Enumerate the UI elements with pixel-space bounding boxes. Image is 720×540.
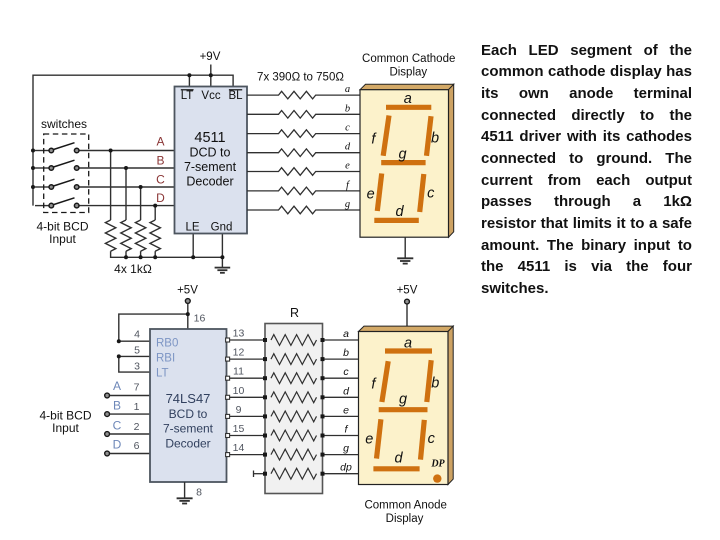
svg-text:a: a — [404, 91, 412, 107]
svg-text:3: 3 — [134, 361, 140, 373]
svg-text:Decoder: Decoder — [186, 175, 233, 189]
svg-text:5: 5 — [134, 345, 140, 357]
wires R box to display 2 — [323, 340, 359, 474]
svg-text:e: e — [345, 161, 350, 172]
+5V terminal (left) — [185, 299, 190, 304]
resistor R3 1k — [135, 220, 145, 251]
resistor R1 1k — [105, 220, 115, 251]
ground under 74LS47 — [177, 498, 193, 503]
wire switch row B — [35, 167, 49, 169]
wire input A — [110, 395, 150, 397]
svg-text:f: f — [345, 424, 349, 436]
svg-text:c: c — [428, 431, 436, 447]
wire dp left — [254, 473, 266, 475]
wire tap D down — [154, 206, 156, 220]
svg-text:Decoder: Decoder — [165, 437, 210, 451]
segment d2 — [373, 466, 419, 471]
svg-text:4: 4 — [134, 329, 140, 341]
segment g — [381, 160, 425, 165]
svg-text:g: g — [343, 443, 349, 455]
svg-text:DP: DP — [430, 459, 445, 470]
display DS2 face — [359, 332, 449, 485]
wire Gnd pin stub — [221, 234, 223, 268]
wire d + resistor Rd — [247, 149, 360, 157]
wire input C — [110, 433, 150, 435]
svg-text:2: 2 — [134, 421, 140, 433]
svg-text:8: 8 — [196, 487, 202, 499]
svg-text:b: b — [431, 376, 439, 392]
svg-text:B: B — [113, 399, 121, 413]
wire input D — [110, 453, 150, 455]
segment a2 — [385, 348, 432, 353]
svg-text:RBI: RBI — [156, 353, 175, 365]
svg-text:74LS47: 74LS47 — [166, 391, 211, 406]
output wires 74LS47 to R — [227, 340, 266, 477]
svg-text:d: d — [345, 142, 351, 153]
tick dp end — [253, 471, 255, 478]
svg-text:e: e — [343, 404, 349, 416]
wire tap B down — [125, 168, 127, 220]
wire row C to chip — [79, 186, 174, 188]
svg-text:A: A — [113, 379, 121, 393]
DS1 segments — [374, 107, 431, 220]
svg-text:g: g — [398, 147, 406, 163]
wire ground rail — [111, 251, 223, 257]
junction dots ground rail — [124, 255, 128, 259]
wire DS1 ground — [404, 237, 406, 258]
svg-text:a: a — [345, 84, 350, 95]
svg-text:c: c — [343, 366, 349, 378]
svg-text:C: C — [113, 419, 122, 433]
wire input B — [110, 413, 150, 415]
wire pin 14 — [227, 454, 266, 456]
switch SW1 — [49, 143, 79, 153]
svg-text:Input: Input — [52, 421, 79, 435]
svg-text:d: d — [395, 204, 404, 220]
wire tap C down — [140, 187, 142, 220]
display DS2 bevel top — [359, 326, 454, 331]
segment c2 — [421, 420, 425, 460]
svg-text:a: a — [404, 336, 412, 352]
svg-text:7: 7 — [134, 382, 140, 394]
wire g + resistor Rg — [247, 206, 360, 214]
wire R4 bottom — [154, 251, 156, 257]
wire pin 12 — [227, 358, 266, 360]
input terminal B — [105, 412, 110, 417]
svg-text:b: b — [431, 131, 439, 147]
junction squares R box edges — [263, 338, 325, 476]
resistors inside R box — [271, 335, 317, 480]
wire pin 5 stub — [119, 355, 150, 357]
segment g2 — [379, 407, 428, 412]
segment f — [383, 116, 389, 156]
svg-text:b: b — [345, 103, 350, 114]
svg-text:DCD to: DCD to — [190, 146, 231, 160]
ground under DS1 — [397, 258, 413, 263]
resistor R2 1k — [121, 220, 131, 251]
wire row D to chip — [79, 205, 174, 207]
svg-text:LE: LE — [185, 222, 199, 234]
svg-text:e: e — [365, 432, 373, 448]
svg-text:BL: BL — [228, 90, 243, 102]
display DS1 bevel right — [449, 84, 454, 237]
svg-text:Common Cathode: Common Cathode — [362, 53, 455, 65]
wire bracket rail — [119, 314, 188, 341]
resistor R4 1k — [150, 220, 160, 251]
wire b + resistor Rb — [247, 111, 360, 119]
wire +5V to 74LS47 — [187, 304, 189, 329]
output wires a-g with resistors — [247, 91, 360, 214]
input terminal C — [105, 432, 110, 437]
wire tap A down — [110, 151, 112, 221]
IC U1 4511 body — [175, 87, 248, 234]
DS2 segment letters — [365, 336, 439, 467]
svg-text:a: a — [343, 328, 349, 340]
wire +9V top rail — [33, 75, 233, 205]
junction dots left vertical — [31, 149, 35, 153]
svg-text:c: c — [345, 123, 350, 134]
junction dots taps — [109, 149, 113, 153]
resistor network R box — [265, 324, 323, 494]
segment e — [377, 174, 381, 212]
junction dot bracket/+5V — [186, 312, 190, 316]
svg-text:BCD to: BCD to — [169, 407, 208, 421]
wire R3 bottom — [140, 251, 142, 257]
svg-text:4511: 4511 — [194, 130, 225, 146]
wire row B to chip — [79, 167, 174, 169]
svg-text:RB0: RB0 — [156, 338, 178, 350]
svg-text:D: D — [113, 438, 122, 452]
display DS1 face — [360, 90, 449, 238]
segment b — [427, 116, 432, 156]
segment d — [374, 218, 419, 223]
svg-text:e: e — [367, 187, 375, 203]
IC U2 74LS47 body — [150, 329, 227, 482]
wire pin 3 stub — [119, 356, 150, 372]
wire row A to chip — [79, 150, 174, 152]
svg-text:c: c — [427, 186, 435, 202]
svg-text:d: d — [394, 451, 403, 467]
wire pin 4 stub — [119, 340, 150, 342]
wire pin 13 — [227, 339, 266, 341]
svg-text:Display: Display — [386, 513, 424, 525]
wire 74LS47 gnd stub — [184, 482, 186, 498]
open pin squares on 74LS47 right edge — [226, 338, 230, 457]
svg-text:15: 15 — [233, 423, 245, 435]
segment f2 — [382, 361, 388, 402]
svg-text:7-sement: 7-sement — [163, 422, 214, 436]
svg-text:6: 6 — [134, 440, 140, 452]
DS1 segment letters — [367, 91, 439, 220]
segment c — [420, 174, 424, 212]
svg-text:dp: dp — [340, 462, 352, 474]
svg-text:LT: LT — [181, 90, 194, 102]
svg-text:Display: Display — [389, 67, 427, 79]
svg-text:g: g — [345, 199, 350, 210]
svg-text:9: 9 — [236, 404, 242, 416]
svg-text:D: D — [156, 191, 165, 205]
svg-text:4x 1kΩ: 4x 1kΩ — [114, 262, 152, 276]
wire f + resistor Rf — [247, 187, 360, 195]
junction dots top rail — [31, 73, 224, 259]
wire +9V drop to Vcc — [210, 65, 212, 87]
svg-text:11: 11 — [233, 366, 244, 378]
DP dot — [433, 474, 441, 482]
switch SW4 — [49, 198, 79, 208]
display DS1 bevel top — [360, 84, 454, 89]
svg-text:switches: switches — [41, 117, 87, 131]
labels pins 13 12 11 10 9 15 14 — [233, 328, 245, 455]
wire pin 10 — [227, 396, 266, 398]
svg-text:Input: Input — [49, 232, 76, 246]
svg-text:Gnd: Gnd — [211, 222, 233, 234]
wire e + resistor Re — [247, 168, 360, 176]
wire pin 9 — [227, 415, 266, 417]
ground under 4511 — [215, 268, 231, 273]
wire pin 15 — [227, 435, 266, 437]
switches dashed box — [44, 134, 89, 213]
wire LE pin stub — [192, 234, 194, 258]
svg-text:+9V: +9V — [200, 51, 221, 63]
wire a + resistor Ra — [247, 91, 360, 99]
svg-text:7x 390Ω to 750Ω: 7x 390Ω to 750Ω — [257, 72, 344, 84]
svg-text:+5V: +5V — [177, 285, 198, 297]
svg-text:10: 10 — [233, 385, 245, 397]
svg-text:14: 14 — [233, 442, 245, 454]
svg-text:Vcc: Vcc — [201, 90, 220, 102]
wire switch row A — [35, 150, 49, 152]
junction dots bracket — [117, 339, 121, 343]
svg-text:Common Anode: Common Anode — [364, 500, 446, 512]
svg-text:12: 12 — [233, 347, 245, 359]
switch SW2 — [49, 160, 79, 170]
wire c + resistor Rc — [247, 130, 360, 138]
display DS2 bevel right — [448, 326, 453, 484]
svg-text:R: R — [290, 306, 299, 320]
+5V terminal (display 2) — [405, 299, 410, 304]
wire pin 11 — [227, 377, 266, 379]
svg-text:g: g — [399, 392, 407, 408]
svg-text:13: 13 — [233, 328, 245, 340]
segment b2 — [427, 360, 431, 402]
DS2 segments — [373, 351, 432, 469]
segment a — [386, 105, 431, 110]
svg-text:b: b — [343, 347, 349, 359]
input terminal D — [105, 451, 110, 456]
svg-text:C: C — [156, 173, 165, 187]
svg-text:B: B — [156, 154, 164, 168]
svg-text:A: A — [156, 135, 164, 149]
wire switch row C — [35, 186, 49, 188]
svg-text:d: d — [343, 385, 350, 397]
switch SW3 — [49, 179, 79, 189]
svg-text:7-sement: 7-sement — [184, 160, 237, 174]
wire LT pin stub — [188, 75, 190, 86]
svg-text:f: f — [346, 180, 351, 191]
pin letters a-dp at display 2 — [340, 328, 352, 474]
svg-text:LT: LT — [156, 368, 169, 380]
svg-text:+5V: +5V — [397, 285, 418, 297]
wire switch row D — [35, 205, 49, 207]
svg-text:16: 16 — [194, 313, 206, 325]
svg-text:1: 1 — [134, 401, 140, 413]
pin letters a-g at display 1 — [345, 84, 351, 210]
wire R2 bottom — [125, 251, 127, 257]
wire +5V to display 2 — [406, 304, 408, 331]
segment e2 — [377, 419, 381, 458]
input terminal A — [105, 393, 110, 398]
